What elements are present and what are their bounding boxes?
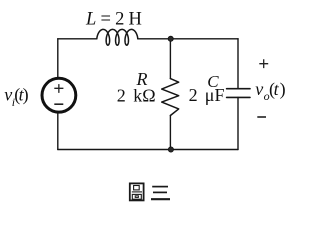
wire resistor branch bottom — [169, 116, 171, 150]
wire right branch lower — [237, 97, 239, 149]
voltage source vi(t) circle — [42, 78, 76, 112]
wire left branch upper — [57, 39, 59, 78]
svg-text:L = 2 H: L = 2 H — [85, 9, 142, 29]
capacitor C (2 uF) top plate — [227, 88, 250, 90]
caption glyph 圖 — [130, 183, 144, 200]
output plus sign — [257, 59, 268, 117]
inductor L (2 H) coil — [97, 29, 138, 45]
wire top rail left segment — [58, 38, 97, 40]
wire resistor branch top — [169, 39, 171, 79]
source plus sign — [54, 84, 63, 104]
wire bottom rail — [58, 149, 238, 151]
caption glyph 三 — [151, 187, 170, 200]
output minus sign — [257, 116, 266, 118]
wire top rail right segment — [138, 38, 238, 40]
source minus sign — [54, 103, 63, 105]
svg-text:2kΩ: 2kΩ — [117, 86, 156, 106]
wire left branch lower — [57, 112, 59, 150]
wire right branch upper — [237, 39, 239, 89]
junction node at bottom rail / resistor branch — [168, 147, 173, 152]
junction node at top rail / resistor branch — [168, 36, 173, 41]
svg-text:2μF: 2μF — [189, 85, 225, 105]
resistor R (2 kOhm) zigzag — [162, 79, 179, 116]
capacitor C (2 uF) bottom plate — [227, 96, 250, 98]
